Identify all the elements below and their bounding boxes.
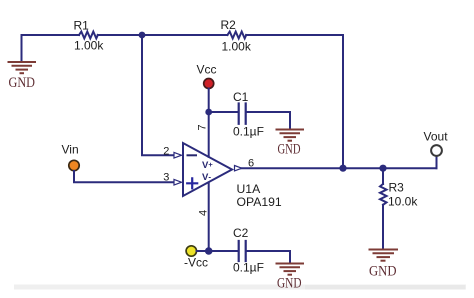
svg-text:-Vcc: -Vcc	[184, 256, 208, 270]
svg-text:Vcc: Vcc	[197, 63, 217, 77]
svg-text:4: 4	[198, 210, 210, 216]
wire output	[242, 167, 437, 169]
node R3 junction	[379, 165, 386, 172]
wire Vcc to pin 7 node	[208, 89, 210, 113]
wire R2 to output node	[246, 35, 343, 168]
pin 4 wire	[208, 183, 210, 252]
pin 2 arrow	[174, 152, 182, 158]
svg-text:R2: R2	[221, 18, 237, 32]
capacitor C2	[239, 241, 246, 261]
resistor R2	[227, 32, 246, 39]
svg-text:C1: C1	[233, 90, 249, 104]
wire GND1 to R1	[22, 35, 80, 62]
op-amp U1A triangle	[183, 143, 232, 196]
ground GND2	[277, 130, 304, 141]
svg-text:OPA191: OPA191	[237, 195, 282, 209]
svg-text:GND: GND	[278, 142, 301, 158]
wire R1 to R2	[98, 34, 228, 36]
wire inverting input (node to pin 2)	[142, 35, 173, 155]
svg-text:C2: C2	[233, 226, 249, 240]
wire R3 top	[382, 168, 384, 184]
svg-text:U1A: U1A	[237, 182, 262, 196]
resistor R1	[79, 32, 98, 39]
ground GND1	[9, 62, 36, 73]
svg-text:GND: GND	[369, 264, 397, 280]
wire R3 to GND3	[382, 205, 384, 249]
wire to Vout	[436, 156, 438, 168]
wire node to C2	[209, 250, 238, 252]
svg-text:Vout: Vout	[424, 130, 449, 144]
node Vcc junction	[205, 109, 212, 116]
capacitor C1	[239, 104, 246, 124]
svg-text:Vin: Vin	[62, 143, 79, 157]
svg-text:10.0k: 10.0k	[388, 195, 418, 209]
svg-text:R3: R3	[389, 181, 405, 195]
wire -Vcc to node	[197, 250, 209, 252]
svg-text:0.1µF: 0.1µF	[233, 125, 264, 139]
pin 7 wire	[208, 112, 210, 157]
op-amp plus sign	[187, 178, 197, 188]
node output-feedback junction	[339, 165, 346, 172]
svg-text:1.00k: 1.00k	[74, 39, 104, 53]
resistor R3	[380, 184, 387, 205]
wire node to C1	[209, 111, 238, 113]
svg-text:R1: R1	[74, 19, 90, 33]
wire C2 to GND4	[246, 251, 290, 263]
svg-text:GND: GND	[277, 276, 302, 292]
svg-text:3: 3	[163, 171, 169, 183]
ground GND3	[370, 250, 398, 261]
svg-text:GND: GND	[9, 75, 36, 91]
faint artifact band	[14, 285, 466, 290]
svg-text:2: 2	[163, 146, 169, 158]
node -Vcc junction	[205, 247, 213, 255]
wire Vin to pin 3	[74, 171, 173, 182]
op-amp minus sign	[188, 154, 197, 156]
terminal -Vcc	[186, 246, 196, 256]
pin 3 arrow	[174, 179, 182, 185]
pin 6 arrow	[235, 166, 242, 171]
svg-text:V-: V-	[202, 172, 211, 183]
node junction A (feedback tap)	[139, 32, 146, 39]
wire C1 to GND2	[246, 112, 290, 129]
ground GND4	[277, 264, 304, 275]
svg-text:1.00k: 1.00k	[222, 40, 252, 54]
svg-text:0.1µF: 0.1µF	[233, 261, 264, 275]
svg-text:7: 7	[197, 124, 209, 130]
